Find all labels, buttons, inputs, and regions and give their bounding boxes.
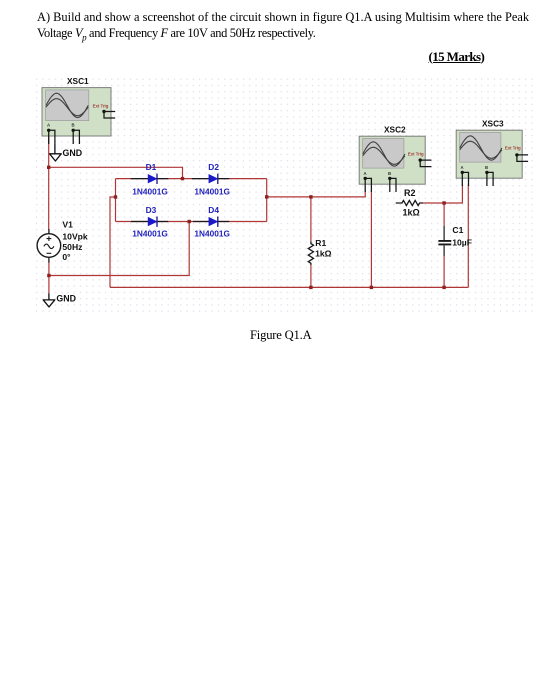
node J1: [47, 166, 50, 169]
svg-text:GND: GND: [56, 293, 76, 303]
wire: [266, 179, 268, 222]
node: [370, 286, 373, 289]
svg-text:D3: D3: [146, 205, 157, 215]
op XSC3 oscilloscope: [456, 130, 528, 186]
wire: [110, 197, 116, 287]
svg-text:C1: C1: [452, 225, 463, 235]
wire: [310, 197, 312, 242]
svg-text:Ext Trig: Ext Trig: [505, 146, 521, 151]
svg-text:XSC1: XSC1: [67, 76, 89, 86]
node: [442, 201, 445, 204]
svg-text:B: B: [72, 122, 75, 127]
svg-text:1N4001G: 1N4001G: [194, 186, 230, 196]
svg-text:Ext Trig: Ext Trig: [93, 103, 109, 108]
node: [309, 286, 312, 289]
svg-text:D2: D2: [208, 162, 219, 172]
wire: [370, 191, 372, 288]
svg-text:D4: D4: [208, 205, 219, 215]
capacitor C1: [438, 226, 451, 256]
svg-text:XSC2: XSC2: [384, 125, 406, 135]
op XSC1 oscilloscope: [42, 88, 115, 144]
wire: [116, 178, 267, 180]
wire: [423, 185, 463, 204]
svg-text:B: B: [485, 165, 488, 170]
wire: [443, 256, 445, 287]
svg-text:Ext Trig: Ext Trig: [408, 152, 424, 157]
svg-text:A: A: [47, 122, 50, 127]
svg-text:10Vpk: 10Vpk: [62, 232, 88, 242]
grid dots: [33, 78, 534, 313]
wire: [116, 221, 267, 223]
node: [181, 177, 184, 180]
wire: [467, 185, 469, 288]
node: [188, 220, 191, 223]
svg-text:0°: 0°: [62, 252, 71, 262]
node: [309, 195, 312, 198]
svg-text:1kΩ: 1kΩ: [403, 207, 420, 217]
svg-text:1kΩ: 1kΩ: [315, 249, 332, 259]
svg-text:V1: V1: [62, 220, 73, 230]
resistor R2: [396, 200, 423, 205]
wire: [310, 265, 312, 287]
wire: [443, 203, 445, 226]
resistor R1: [308, 242, 313, 266]
svg-text:A: A: [461, 165, 464, 170]
node: [265, 195, 268, 198]
op XSC2 oscilloscope: [359, 136, 431, 192]
svg-text:10µF: 10µF: [452, 238, 472, 248]
ground GND2: [43, 293, 76, 307]
node: [47, 274, 50, 277]
svg-text:1N4001G: 1N4001G: [132, 228, 168, 238]
svg-text:50Hz: 50Hz: [62, 242, 82, 252]
svg-text:R1: R1: [315, 238, 326, 248]
svg-text:D1: D1: [146, 162, 157, 172]
label V1 value: [62, 220, 88, 262]
svg-text:A: A: [364, 171, 367, 176]
svg-text:1N4001G: 1N4001G: [132, 186, 168, 196]
svg-text:XSC3: XSC3: [482, 119, 504, 129]
diode D4: [193, 217, 229, 227]
wire: [48, 134, 50, 167]
wire: [115, 179, 117, 222]
wire: [49, 167, 183, 178]
wire: [48, 262, 50, 294]
ground GND1: [50, 144, 82, 161]
wire: [48, 167, 50, 229]
node: [114, 195, 117, 198]
wire: [267, 190, 366, 197]
svg-text:1N4001G: 1N4001G: [194, 228, 230, 238]
diode D2: [192, 174, 229, 184]
svg-text:B: B: [388, 171, 391, 176]
diode D1: [131, 174, 168, 184]
node: [442, 286, 445, 289]
svg-text:GND: GND: [63, 148, 83, 158]
svg-text:R2: R2: [404, 188, 416, 198]
wire (bottom rail): [110, 286, 468, 288]
wire: [49, 222, 189, 276]
source V1: [37, 229, 61, 263]
diode D3: [131, 217, 168, 227]
